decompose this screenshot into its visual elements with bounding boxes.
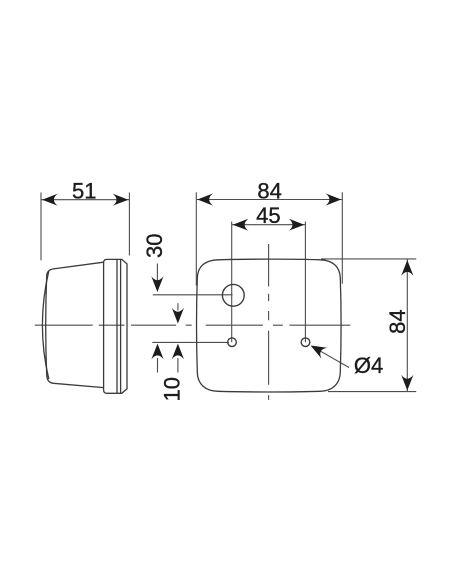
svg-text:84: 84 bbox=[385, 309, 410, 333]
svg-text:84: 84 bbox=[257, 178, 281, 203]
svg-text:51: 51 bbox=[72, 178, 96, 203]
svg-text:30: 30 bbox=[142, 234, 167, 258]
svg-text:10: 10 bbox=[159, 377, 184, 401]
svg-text:45: 45 bbox=[256, 203, 280, 228]
svg-text:Ø4: Ø4 bbox=[354, 353, 383, 378]
